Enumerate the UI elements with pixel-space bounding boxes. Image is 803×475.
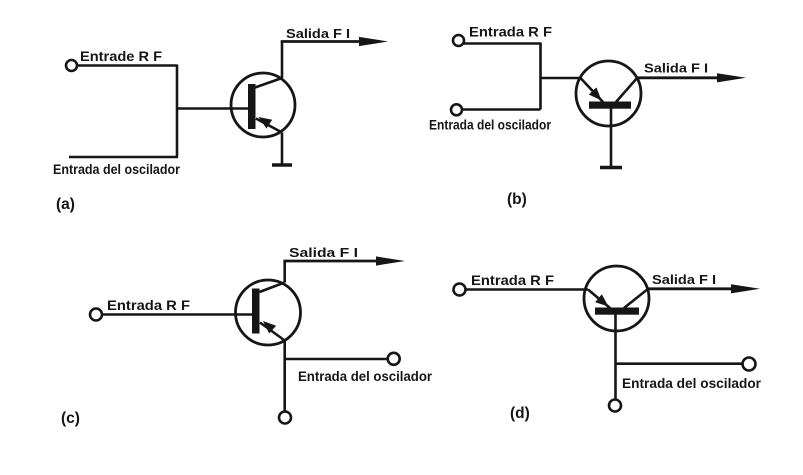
terminal: bottom (c) (279, 412, 291, 424)
svg-text:(a): (a) (56, 196, 75, 213)
wire: below bar to terminal (d) (614, 315, 617, 400)
transistor Q-c emitter arrow (PNP, points to base) (263, 321, 276, 334)
svg-text:Salida F I: Salida F I (289, 245, 358, 260)
wire: base lead (b) (541, 77, 581, 79)
transistor Q-c collector stroke (260, 283, 285, 293)
svg-text:(c): (c) (61, 410, 80, 427)
svg-text:(d): (d) (510, 405, 530, 422)
svg-text:Entrada R F: Entrada R F (471, 272, 554, 288)
wire: Salida F I output (c) (283, 260, 385, 263)
svg-text:Entrada del oscilador: Entrada del oscilador (298, 368, 433, 384)
transistor Q-b base bar (589, 102, 631, 109)
terminal: Entrade R F input (a) (66, 60, 77, 71)
wire: oscillator input horizontal (d) (616, 362, 743, 365)
transistor Q-b emitter arrow (PNP, points to base) (589, 87, 602, 100)
wire: collector up to output (a) (281, 42, 284, 79)
terminal: oscillator input (d) (743, 358, 756, 371)
svg-text:Entrada del oscilador: Entrada del oscilador (622, 375, 762, 391)
wire: RF input horizontal (a) (77, 64, 177, 67)
terminal: Entrada R F input (c) (90, 309, 102, 321)
wire: RF input horizontal (b) (464, 42, 541, 45)
transistor Q-d collector stroke (624, 289, 649, 309)
svg-text:Entrada R F: Entrada R F (469, 24, 552, 40)
terminal: Entrada R F input (b) (453, 35, 464, 46)
transistor Q-c base bar (252, 289, 260, 334)
arrowhead Salida F I (b) (717, 73, 746, 82)
transistor Q-a body circle (231, 73, 295, 137)
wire: oscillator input horizontal (a) (69, 156, 178, 159)
wire: RF input horizontal (c) (102, 313, 252, 315)
wire: oscillator input horizontal (c) (285, 358, 388, 361)
transistor Q-c emitter stroke (260, 323, 285, 341)
transistor Q-b collector stroke (616, 78, 638, 103)
transistor Q-b emitter stroke (580, 78, 603, 103)
terminal: oscillator input (b) (451, 104, 462, 115)
transistor Q-a base bar (248, 84, 256, 129)
svg-text:Salida F I: Salida F I (644, 61, 708, 76)
wire: emitter down to terminal (c) (283, 341, 286, 412)
wire: Salida F I output (a) (281, 40, 368, 43)
transistor Q-d emitter arrow (PNP, points to base) (595, 294, 608, 306)
wire: emitter down to ground (a) (281, 133, 284, 166)
transistor Q-b body circle (576, 61, 641, 126)
transistor Q-d emitter stroke (588, 290, 610, 309)
ground (a) (272, 163, 292, 167)
terminal: bottom (d) (609, 400, 621, 412)
wire: RF input horizontal (d) (466, 288, 589, 290)
wire: vertical joining inputs (b) (539, 43, 542, 110)
wire: Salida F I output (d) (648, 287, 740, 290)
svg-text:Salida F I: Salida F I (286, 26, 350, 41)
arrowhead Salida F I (a) (359, 37, 388, 46)
svg-text:Entrade R F: Entrade R F (80, 48, 162, 64)
ground (b) (600, 166, 622, 170)
svg-text:Salida F I: Salida F I (652, 272, 716, 287)
wire: vertical joining RF and oscillator (a) (176, 65, 179, 158)
wire: base lead (a) (177, 107, 249, 109)
wire: Salida F I output (b) (637, 76, 725, 79)
wire: below bar to ground (b) (610, 109, 613, 168)
transistor Q-a emitter arrow (PNP, points to base) (259, 117, 273, 129)
arrowhead Salida F I (c) (376, 256, 405, 265)
terminal: oscillator input (c) (388, 353, 400, 365)
terminal: Entrada R F input (d) (454, 284, 466, 296)
transistor Q-c body circle (236, 280, 301, 345)
svg-text:Entrada R F: Entrada R F (107, 297, 190, 313)
arrowhead Salida F I (d) (731, 284, 760, 293)
transistor Q-a collector stroke (255, 78, 282, 88)
transistor Q-a emitter stroke (256, 119, 282, 133)
wire: collector up to output (c) (283, 261, 286, 283)
transistor Q-d base bar (595, 308, 639, 315)
transistor Q-d body circle (584, 266, 649, 331)
svg-text:(b): (b) (507, 191, 527, 208)
svg-text:Entrada del oscilador: Entrada del oscilador (53, 161, 180, 177)
svg-text:Entrada del oscilador: Entrada del oscilador (429, 117, 551, 133)
wire: oscillator input horizontal (b) (462, 108, 541, 111)
